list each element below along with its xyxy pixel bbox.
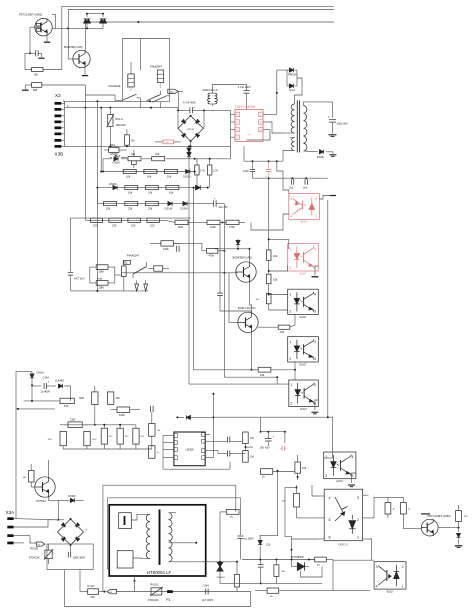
relay K102 F4AA524T: [123, 253, 139, 264]
wire top rail 1: [62, 5, 334, 7]
svg-text:LL01: LL01: [289, 88, 295, 92]
svg-text:2: 2: [325, 474, 327, 478]
svg-text:2221F18 LX: 2221F18 LX: [202, 88, 217, 92]
wire: [61, 6, 63, 69]
resistor R137 510: [24, 398, 75, 408]
svg-text:470k: 470k: [209, 255, 215, 258]
wire: [251, 333, 259, 371]
diode D108 GS1M: [165, 202, 173, 211]
wire divider tops: [63, 424, 136, 428]
wire: [268, 284, 288, 296]
svg-text:4: 4: [352, 455, 354, 459]
svg-text:GS1M: GS1M: [165, 207, 172, 211]
ground: [39, 53, 45, 58]
svg-text:1: 1: [289, 292, 291, 296]
wire top 1: [103, 484, 236, 486]
svg-text:10k: 10k: [302, 466, 307, 470]
svg-text:EL817: EL817: [387, 592, 394, 594]
IC U100 TNY274GN: [231, 104, 269, 142]
wire: [165, 220, 245, 222]
diode D106 GS1M: [109, 182, 117, 190]
wire: [195, 158, 231, 160]
svg-text:10k: 10k: [260, 373, 265, 377]
svg-text:SMP: SMP: [79, 398, 84, 400]
svg-text:X3A: X3A: [6, 510, 16, 515]
wire bus AC1: [65, 100, 170, 102]
wire: [268, 113, 277, 115]
svg-text:PDTC143ET (A662): PDTC143ET (A662): [19, 13, 42, 17]
wire: [260, 417, 262, 432]
wire: [204, 110, 231, 158]
diode D102 GS1M: [110, 155, 127, 164]
diode pair D100: [84, 14, 91, 29]
wire: [235, 485, 237, 512]
svg-text:ES2D: ES2D: [317, 155, 324, 159]
resistor R121 2.7k: [195, 159, 206, 189]
svg-text:PRD1A: PRD1A: [288, 72, 297, 76]
diode D107: [196, 185, 209, 190]
svg-text:220: 220: [112, 223, 117, 227]
resistor R118 220: [109, 218, 122, 227]
relay K101 F3AA024E coil: [109, 74, 135, 91]
fuse F100 100A 305V: [68, 552, 85, 560]
zener D113: [236, 239, 240, 249]
wire: [58, 519, 64, 521]
wire: [255, 590, 333, 592]
resistor R162 47k: [309, 557, 333, 566]
resistor R135 100k: [150, 241, 180, 251]
svg-text:10k: 10k: [273, 254, 278, 258]
resistor R111 10k: [125, 186, 138, 195]
svg-text:2: 2: [289, 357, 291, 361]
resistor R143 12k7: [84, 431, 98, 445]
wire box: [47, 544, 93, 570]
svg-text:488: 488: [33, 89, 38, 92]
svg-text:LM358: LM358: [186, 448, 194, 452]
ground: [455, 546, 462, 548]
resistor R107 22k: [152, 152, 166, 161]
relay K100 F4AA524T coil: [150, 65, 164, 88]
resistor R115 22k: [125, 202, 138, 211]
svg-text:1: 1: [289, 247, 291, 251]
svg-text:K200005: K200005: [217, 577, 226, 579]
wire: [71, 217, 191, 219]
svg-text:R13B: R13B: [97, 278, 103, 280]
wire: [247, 130, 271, 140]
wire row4: [97, 203, 194, 205]
resistor R131 10M: [96, 265, 108, 274]
wire: [268, 260, 270, 274]
resistor R142 12k7: [47, 431, 66, 445]
svg-text:10k: 10k: [167, 175, 172, 179]
svg-text:3: 3: [314, 357, 316, 361]
svg-text:43k: 43k: [116, 396, 121, 400]
wire: [71, 290, 149, 292]
wire: [134, 576, 136, 592]
transistor Q103 BC817-40 (6C): [238, 306, 258, 333]
svg-text:3: 3: [290, 197, 292, 201]
resistor R141 12k7: [68, 418, 82, 428]
wire trunk B: [193, 187, 195, 370]
svg-text:1: 1: [325, 455, 327, 459]
capacitor C115: [227, 451, 229, 457]
wire: [194, 369, 259, 371]
svg-text:4: 4: [314, 383, 316, 387]
capacitor C100: [30, 50, 42, 56]
wire: [14, 519, 59, 520]
svg-text:BT168GW: BT168GW: [292, 555, 305, 559]
svg-text:EL817: EL817: [301, 222, 308, 224]
svg-text:C14A: C14A: [43, 375, 50, 379]
svg-text:TNY274GN: TNY274GN: [235, 104, 256, 109]
thyristor Q106 BT168GW: [292, 555, 323, 577]
capacitor C108 2n2: [303, 178, 308, 189]
svg-text:100A 305V: 100A 305V: [73, 556, 86, 560]
wire pad stubs: [61, 109, 64, 146]
resistor R149 1M: [243, 432, 254, 444]
resistor R148 1k: [149, 446, 161, 459]
wire: [70, 218, 72, 271]
resistor R108 10k: [123, 169, 136, 178]
resistor R123 2M2: [175, 220, 188, 229]
svg-text:GS1M: GS1M: [113, 162, 120, 165]
resistor R114 22k: [104, 202, 117, 211]
resistor R117 220: [91, 218, 103, 227]
wire: [224, 376, 278, 384]
wire pins right: [363, 495, 369, 539]
transistor Q100 PDTC143ET (A662): [19, 13, 52, 36]
wire: [102, 485, 104, 591]
wire: [271, 369, 295, 371]
wire: [122, 95, 124, 101]
wire: [14, 536, 37, 543]
svg-text:PDTC143ET (A662): PDTC143ET (A662): [428, 514, 451, 518]
capacitor C117 red: [280, 446, 287, 451]
resistor R132 10M: [96, 278, 108, 289]
capacitor C101 4.7uF 400V: [177, 101, 205, 113]
resistor R150 1M: [243, 451, 254, 463]
svg-text:EL817: EL817: [300, 273, 307, 275]
svg-text:100k: 100k: [119, 413, 125, 417]
optocoupler U108 EL817: [374, 562, 406, 594]
capacitor C111: [217, 222, 251, 312]
wire: [14, 520, 59, 527]
connector X2: [55, 93, 70, 157]
wire top rail 2: [68, 9, 334, 11]
diode D112 ES2D: [317, 150, 324, 159]
svg-text:3: 3: [314, 310, 316, 314]
wire row3: [96, 187, 207, 189]
capacitor C118 1u 250V: [238, 536, 254, 560]
connector X3A: [6, 510, 16, 544]
wire: [25, 53, 32, 69]
wire: [324, 417, 333, 458]
resistor R160: [235, 562, 240, 592]
wire emitter rail: [52, 27, 103, 29]
transformer T100 secondary: [304, 106, 307, 151]
diode D111 LL01: [289, 84, 295, 92]
diode pair D101: [100, 14, 107, 29]
wire: [210, 457, 214, 459]
wire: [60, 424, 90, 426]
svg-text:10k: 10k: [273, 278, 278, 282]
svg-text:12k7: 12k7: [70, 418, 76, 422]
optocoupler U101 EL817 (red): [289, 194, 320, 224]
svg-text:1: 1: [402, 584, 404, 588]
svg-text:1: 1: [289, 340, 291, 344]
wire: [294, 362, 296, 371]
wire top 2: [108, 498, 241, 570]
svg-text:4: 4: [290, 215, 292, 219]
wire: [96, 101, 98, 291]
svg-text:2: 2: [290, 402, 292, 406]
resistor R100 10k: [32, 67, 62, 76]
svg-text:4: 4: [314, 247, 316, 251]
svg-text:2n2: 2n2: [303, 186, 308, 190]
svg-text:EL817: EL817: [336, 481, 343, 483]
svg-text:100: 100: [90, 595, 95, 599]
svg-text:100u 35V: 100u 35V: [337, 122, 348, 126]
resistor R106 22k: [128, 152, 142, 161]
wire: [195, 542, 197, 544]
transformer T100 core: [297, 101, 299, 153]
wire: [102, 159, 104, 173]
svg-text:1u 400V: 1u 400V: [41, 390, 51, 394]
resistor R126 10k: [266, 250, 277, 260]
wire: [260, 431, 286, 433]
fuse arrow K1: [168, 89, 179, 94]
svg-text:AKT 1KV: AKT 1KV: [74, 277, 85, 281]
wire: [57, 500, 59, 520]
wire ground: [311, 400, 318, 414]
wire: [253, 177, 328, 179]
resistor R109 10k: [144, 169, 157, 178]
wire trunk A: [188, 155, 190, 384]
ground: [329, 135, 337, 137]
capacitor C109 AKT 1KV: [68, 273, 85, 291]
svg-text:F3AA024E: F3AA024E: [109, 85, 121, 88]
svg-text:F4AA524T: F4AA524T: [127, 253, 140, 257]
svg-text:DF10S: DF10S: [187, 129, 194, 131]
wire row5: [85, 219, 165, 221]
svg-text:BC847BW (1F5): BC847BW (1F5): [233, 256, 252, 260]
wire: [294, 370, 296, 380]
wire: [100, 108, 102, 172]
bridge rectifier DF10S: [178, 115, 203, 142]
wire: [304, 150, 319, 153]
optocoupler U102 EL817 (red): [288, 244, 319, 276]
resistor R125 470k: [222, 220, 240, 229]
resistor R120 220: [147, 218, 160, 227]
svg-text:1M: 1M: [250, 436, 254, 440]
transformer module HT90004 LF: [109, 505, 206, 576]
optocoupler U107 CNY17-3: [324, 489, 362, 546]
switch S102: [133, 262, 147, 278]
svg-text:P1: P1: [166, 598, 170, 602]
wire: [215, 245, 251, 261]
diode D110 PRD1A: [288, 68, 297, 76]
wire: [96, 188, 98, 204]
wire: [387, 514, 389, 518]
capacitor C105 100n: [243, 161, 255, 178]
wire pins left: [318, 496, 324, 539]
capacitor C120: [258, 560, 264, 585]
svg-text:K1: K1: [171, 90, 175, 94]
wire: [230, 145, 232, 147]
resistor R139 43k: [108, 392, 121, 405]
wire: [269, 265, 288, 271]
svg-text:EL817: EL817: [300, 409, 307, 411]
wire: [48, 460, 50, 477]
svg-text:2n2: 2n2: [289, 186, 294, 190]
svg-text:10M: 10M: [99, 270, 104, 274]
capacitor C113: [151, 406, 154, 412]
fuse arrow K2: [36, 542, 45, 547]
svg-text:510: 510: [64, 404, 69, 408]
resistor R145 2k2: [117, 428, 129, 444]
svg-text:12V: 12V: [266, 542, 271, 546]
svg-text:10k: 10k: [34, 73, 39, 77]
wire: [199, 561, 238, 563]
wire bus AC2: [65, 107, 179, 109]
resistor R164 4R8: [25, 83, 85, 95]
wire row2: [100, 171, 195, 173]
wire snubber loop: [276, 70, 287, 114]
svg-text:GS1M: GS1M: [180, 207, 187, 211]
wire: [295, 78, 303, 104]
svg-text:RV101: RV101: [150, 582, 158, 586]
capacitor C102 4.7uF 400V: [238, 85, 251, 110]
svg-text:1: 1: [290, 383, 292, 387]
svg-text:R-107: R-107: [88, 584, 96, 588]
optocoupler U103 EL817: [288, 289, 319, 319]
resistor R134 56k: [148, 266, 169, 271]
svg-text:HT90004 LF: HT90004 LF: [147, 570, 172, 575]
wire: [64, 386, 70, 401]
wire ground: [319, 196, 336, 200]
potentiometer P1: [166, 590, 172, 602]
wire trunk C: [223, 204, 225, 378]
svg-text:22k: 22k: [155, 152, 160, 156]
svg-text:4n7 300V: 4n7 300V: [202, 598, 213, 602]
wire: [260, 470, 278, 541]
wire: [333, 590, 370, 592]
svg-text:C144: C144: [203, 583, 210, 587]
svg-text:BC847BW (1F5): BC847BW (1F5): [64, 46, 83, 49]
wire ladder: [64, 101, 66, 146]
spark gap E101: [144, 280, 148, 291]
svg-text:2: 2: [357, 518, 359, 522]
resistor R128 10k: [255, 293, 287, 310]
transistor Q101 BC847BW (1F5): [64, 46, 90, 67]
svg-text:RV1-A: RV1-A: [116, 118, 124, 121]
svg-text:-: -: [54, 530, 55, 534]
svg-text:4.7uF 400V: 4.7uF 400V: [238, 86, 251, 89]
wire: [47, 385, 56, 387]
svg-text:3: 3: [357, 496, 359, 500]
svg-text:10u 35V: 10u 35V: [219, 206, 229, 209]
bridge rectifier D119 DF10S: [54, 518, 88, 546]
diode D109 GS1M: [180, 202, 187, 211]
wire: [52, 14, 85, 50]
wire: [369, 497, 388, 518]
wire: [67, 10, 69, 60]
svg-text:tny: tny: [248, 133, 251, 136]
optocoupler U106 EL817: [324, 452, 356, 483]
resistor R147 10k2: [149, 424, 162, 437]
wire: [304, 102, 333, 118]
diode D116 LL4448: [55, 378, 64, 388]
svg-text:PZTA44: PZTA44: [36, 499, 46, 503]
wire bottom bus: [116, 591, 250, 593]
svg-text:CNY17-3: CNY17-3: [338, 545, 348, 547]
wire: [312, 485, 318, 496]
transistor Q102 BC847BW (1F5): [233, 256, 257, 283]
svg-text:07D431K: 07D431K: [148, 598, 159, 602]
svg-text:10k: 10k: [169, 191, 174, 195]
wire: [244, 146, 283, 162]
wire bottom rail: [64, 570, 250, 607]
transistor Q105 PZTA44: [35, 477, 55, 503]
transformer T100 primary: [283, 104, 295, 133]
wire diode top bar: [86, 13, 104, 15]
wire: [277, 161, 289, 199]
svg-text:22k: 22k: [128, 207, 133, 211]
spark gap E100: [135, 280, 139, 291]
svg-text:4: 4: [314, 292, 316, 296]
svg-text:GS1M: GS1M: [109, 182, 116, 186]
inductor L100 2221F18 LX: [202, 85, 246, 107]
svg-text:2: 2: [289, 310, 291, 314]
wire: [268, 238, 289, 249]
svg-text:2M2: 2M2: [178, 225, 184, 229]
resistor R156 330: [456, 505, 469, 528]
svg-text:470k: 470k: [229, 225, 235, 229]
capacitor C114: [227, 437, 229, 443]
wire: [70, 545, 72, 553]
svg-text:4.7uF 400V: 4.7uF 400V: [183, 101, 196, 104]
svg-text:4: 4: [376, 584, 378, 588]
capacitor C104 100u 35V: [328, 116, 348, 134]
svg-text:2.7k: 2.7k: [213, 169, 219, 173]
svg-text:2: 2: [289, 266, 291, 270]
capacitor C110: [177, 246, 179, 252]
resistor R138 SMP: [79, 386, 98, 426]
svg-text:LL4448: LL4448: [55, 378, 64, 382]
resistor R144 2k2: [101, 428, 113, 444]
resistor R130 10k: [258, 367, 271, 377]
resistor R119 220: [128, 218, 141, 227]
resistor R161 30k: [274, 560, 286, 584]
zener D115 G51M: [30, 370, 44, 386]
resistor R159 10k: [220, 510, 239, 519]
svg-text:10k: 10k: [128, 191, 133, 195]
svg-text:F4AA524T: F4AA524T: [150, 65, 162, 68]
svg-text:100n: 100n: [243, 169, 249, 173]
switch S100: [115, 94, 140, 100]
wire: [49, 497, 59, 500]
wire: [268, 178, 270, 250]
wire: [151, 412, 153, 445]
wire: [219, 512, 221, 562]
capacitor C103 10u 35V: [195, 198, 228, 209]
resistor R140 100k: [111, 407, 140, 417]
wire: [290, 315, 295, 328]
varistor RV101 07D431K: [148, 582, 163, 602]
wire: [14, 542, 24, 544]
svg-text:10k: 10k: [126, 175, 131, 179]
wire relay loop: [123, 39, 170, 96]
